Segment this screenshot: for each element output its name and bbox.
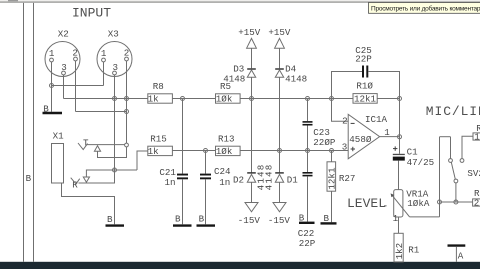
svg-text:12k1: 12k1 — [354, 94, 377, 105]
svg-text:X1: X1 — [53, 131, 65, 142]
svg-text:22P: 22P — [355, 54, 372, 65]
left sheet border line outer — [23, 3, 25, 262]
wire VR1A to R1 — [398, 217, 400, 233]
svg-text:D1: D1 — [287, 175, 299, 186]
svg-text:1n: 1n — [219, 177, 230, 188]
wire D4 down to D1 — [279, 77, 281, 172]
svg-text:R15: R15 — [150, 134, 167, 145]
wire node to pin2 — [332, 99, 349, 122]
wire D3 to line1 — [251, 77, 253, 98]
wire X2 pin1 down to ground — [51, 62, 53, 112]
ground B C21 — [173, 224, 192, 226]
svg-text:B: B — [175, 213, 181, 224]
VR1A wiper arrow — [391, 194, 409, 217]
wire D2 to -15V — [251, 182, 253, 202]
svg-text:1Øk: 1Øk — [216, 146, 233, 157]
svg-text:INPUT: INPUT — [72, 6, 111, 21]
wire X2 pin3 down — [63, 75, 65, 99]
wire node up to R15 — [137, 151, 148, 170]
junction pivot/output row — [454, 200, 458, 204]
left sheet border line inner — [33, 3, 35, 262]
wire ring contact — [79, 170, 115, 183]
svg-text:X3: X3 — [108, 29, 119, 40]
svg-text:47/25: 47/25 — [407, 157, 435, 168]
wire output row — [440, 201, 473, 203]
capacitor C1 — [393, 148, 397, 150]
svg-text:27: 27 — [474, 197, 480, 208]
junction C23/line1 — [306, 97, 310, 101]
wire +15V to D3 — [251, 48, 253, 68]
svg-text:T: T — [83, 138, 89, 149]
svg-text:B: B — [199, 213, 205, 224]
svg-text:D2: D2 — [233, 175, 244, 186]
wire R5 to opamp node — [240, 98, 331, 100]
wire C23 to line2 — [307, 126, 309, 173]
jack X1 body — [52, 144, 64, 184]
svg-text:22P: 22P — [299, 238, 316, 249]
wire down to contact — [450, 137, 452, 159]
wire NC contact loop — [98, 147, 127, 158]
svg-text:A: A — [458, 250, 464, 261]
wire C24 to ground — [205, 179, 207, 224]
ground A output — [448, 244, 466, 246]
svg-text:Просмотреть или добавить комме: Просмотреть или добавить комментарий — [371, 4, 480, 12]
wire down to D2 — [251, 99, 253, 173]
svg-text:1k: 1k — [148, 146, 160, 157]
wire +15V to D4 — [279, 48, 281, 68]
power -15V right — [273, 203, 286, 212]
svg-text:MIC/LINE: MIC/LINE — [426, 104, 480, 119]
jack ring NC contact arrow — [83, 177, 89, 182]
svg-text:IC1A: IC1A — [365, 114, 388, 125]
node tip switch — [125, 143, 129, 147]
wire hot line to R8 — [64, 98, 148, 100]
connector X3 body — [97, 42, 132, 77]
junction D3/line1 — [250, 97, 254, 101]
wire wiper run to switch column — [410, 216, 440, 218]
top toolbar strip — [0, 0, 480, 1]
ground B C24 — [197, 224, 216, 226]
switch SV2 lever — [451, 162, 455, 179]
wire switch column vertical — [439, 137, 441, 217]
wire C21 to ground — [182, 179, 184, 224]
resistor R27 — [331, 151, 333, 162]
wire C1 to VR1A — [398, 161, 400, 190]
svg-text:4148: 4148 — [223, 74, 245, 85]
op-amp IC1A — [348, 114, 379, 158]
svg-text:B: B — [26, 173, 32, 184]
capacitor C24 — [205, 151, 207, 174]
wire X3 pin3 down — [114, 75, 116, 170]
wire ring NC to node — [86, 170, 137, 177]
svg-text:B: B — [43, 103, 49, 114]
svg-text:4148: 4148 — [285, 74, 307, 85]
resistor R1 — [394, 233, 403, 262]
bottom taskbar strip — [0, 262, 480, 269]
wire X3 pin2 down — [126, 61, 128, 143]
junction X3 pin2 / line1 — [125, 97, 129, 101]
wire R15 to R13 — [172, 150, 215, 152]
junction X2 pin2 joins — [125, 110, 129, 114]
ground B jack sleeve — [106, 224, 125, 226]
capacitor C23 — [307, 99, 309, 122]
svg-text:SV2: SV2 — [467, 168, 480, 179]
svg-text:LEVEL: LEVEL — [347, 196, 386, 211]
junction ring node — [113, 168, 117, 172]
svg-text:3: 3 — [342, 142, 348, 153]
wire C22 to ground — [307, 176, 309, 221]
junction inverting node — [330, 97, 334, 101]
svg-text:22ØP: 22ØP — [313, 137, 336, 148]
jack tip NC contact arrow — [94, 146, 100, 152]
junction output pin1 — [398, 135, 402, 139]
switch SV2 contact b — [460, 159, 464, 163]
junction C21 tap — [181, 97, 185, 101]
svg-text:458Ø: 458Ø — [349, 134, 372, 145]
switch SV2 pivot — [454, 179, 458, 183]
wire pin1 bus — [52, 85, 104, 87]
junction output node top — [398, 97, 402, 101]
wire tip to switch node — [87, 144, 125, 146]
capacitor C21 — [182, 99, 184, 174]
ground B R27 — [321, 222, 337, 224]
connector X2 body — [45, 42, 80, 77]
wire R27 to ground — [331, 191, 333, 222]
wire jack sleeve to ground — [62, 183, 115, 224]
svg-text:R1: R1 — [408, 244, 420, 255]
wire output down — [399, 99, 401, 154]
svg-text:R13: R13 — [218, 134, 235, 145]
svg-text:R8: R8 — [153, 81, 164, 92]
svg-text:R1Ø: R1Ø — [356, 80, 373, 91]
svg-text:1k2: 1k2 — [394, 243, 405, 260]
svg-text:1: 1 — [49, 48, 55, 59]
junction X3 pin3 / line1 — [113, 97, 117, 101]
junction R27/line2 — [330, 149, 334, 153]
svg-text:B: B — [299, 213, 305, 224]
junction wiper/output row — [438, 200, 442, 204]
wire R8 to R5 — [172, 98, 215, 100]
svg-text:12k1: 12k1 — [327, 167, 338, 190]
junction D4/line2 — [278, 149, 282, 153]
svg-text:1Øk: 1Øk — [216, 94, 233, 105]
power -15V left — [245, 203, 258, 212]
svg-text:+15V: +15V — [268, 27, 291, 38]
junction pin1/ground — [50, 84, 54, 88]
svg-text:C1: C1 — [407, 146, 419, 157]
svg-text:X2: X2 — [58, 29, 69, 40]
ground B under X2 — [43, 112, 63, 114]
svg-text:4148: 4148 — [264, 164, 275, 191]
wire X3 pin1 down — [103, 62, 105, 86]
ground B C22 — [299, 222, 315, 224]
svg-text:1Ø: 1Ø — [474, 131, 480, 142]
wire pivot down — [455, 183, 457, 202]
tooltip — [369, 3, 480, 14]
junction C24 tap — [204, 149, 208, 153]
svg-text:1: 1 — [393, 213, 399, 224]
svg-text:B: B — [107, 214, 113, 225]
wire switch top bridge — [440, 136, 451, 138]
switch SV2 contact a — [449, 159, 453, 163]
svg-text:1: 1 — [101, 48, 107, 59]
svg-text:1n: 1n — [165, 177, 176, 188]
svg-text:1ØkA: 1ØkA — [407, 198, 430, 209]
svg-text:B: B — [324, 213, 330, 224]
potentiometer VR1A — [394, 190, 403, 217]
capacitor C22 — [303, 172, 313, 174]
wire X2 pin2 down — [75, 61, 77, 112]
svg-text:R27: R27 — [339, 173, 356, 184]
wire X2 pin2 across — [76, 111, 127, 113]
svg-text:-15V: -15V — [268, 215, 291, 226]
svg-text:2: 2 — [342, 115, 348, 126]
wire contact b to resistor — [462, 136, 473, 158]
svg-text:C24: C24 — [214, 166, 231, 177]
svg-text:+15V: +15V — [238, 27, 261, 38]
svg-text:-15V: -15V — [238, 215, 261, 226]
wire D1 to -15V — [279, 182, 281, 202]
junction C22/line2 — [306, 149, 310, 153]
svg-text:1k: 1k — [148, 94, 160, 105]
wire R13 to opamp pin3 — [240, 150, 348, 152]
